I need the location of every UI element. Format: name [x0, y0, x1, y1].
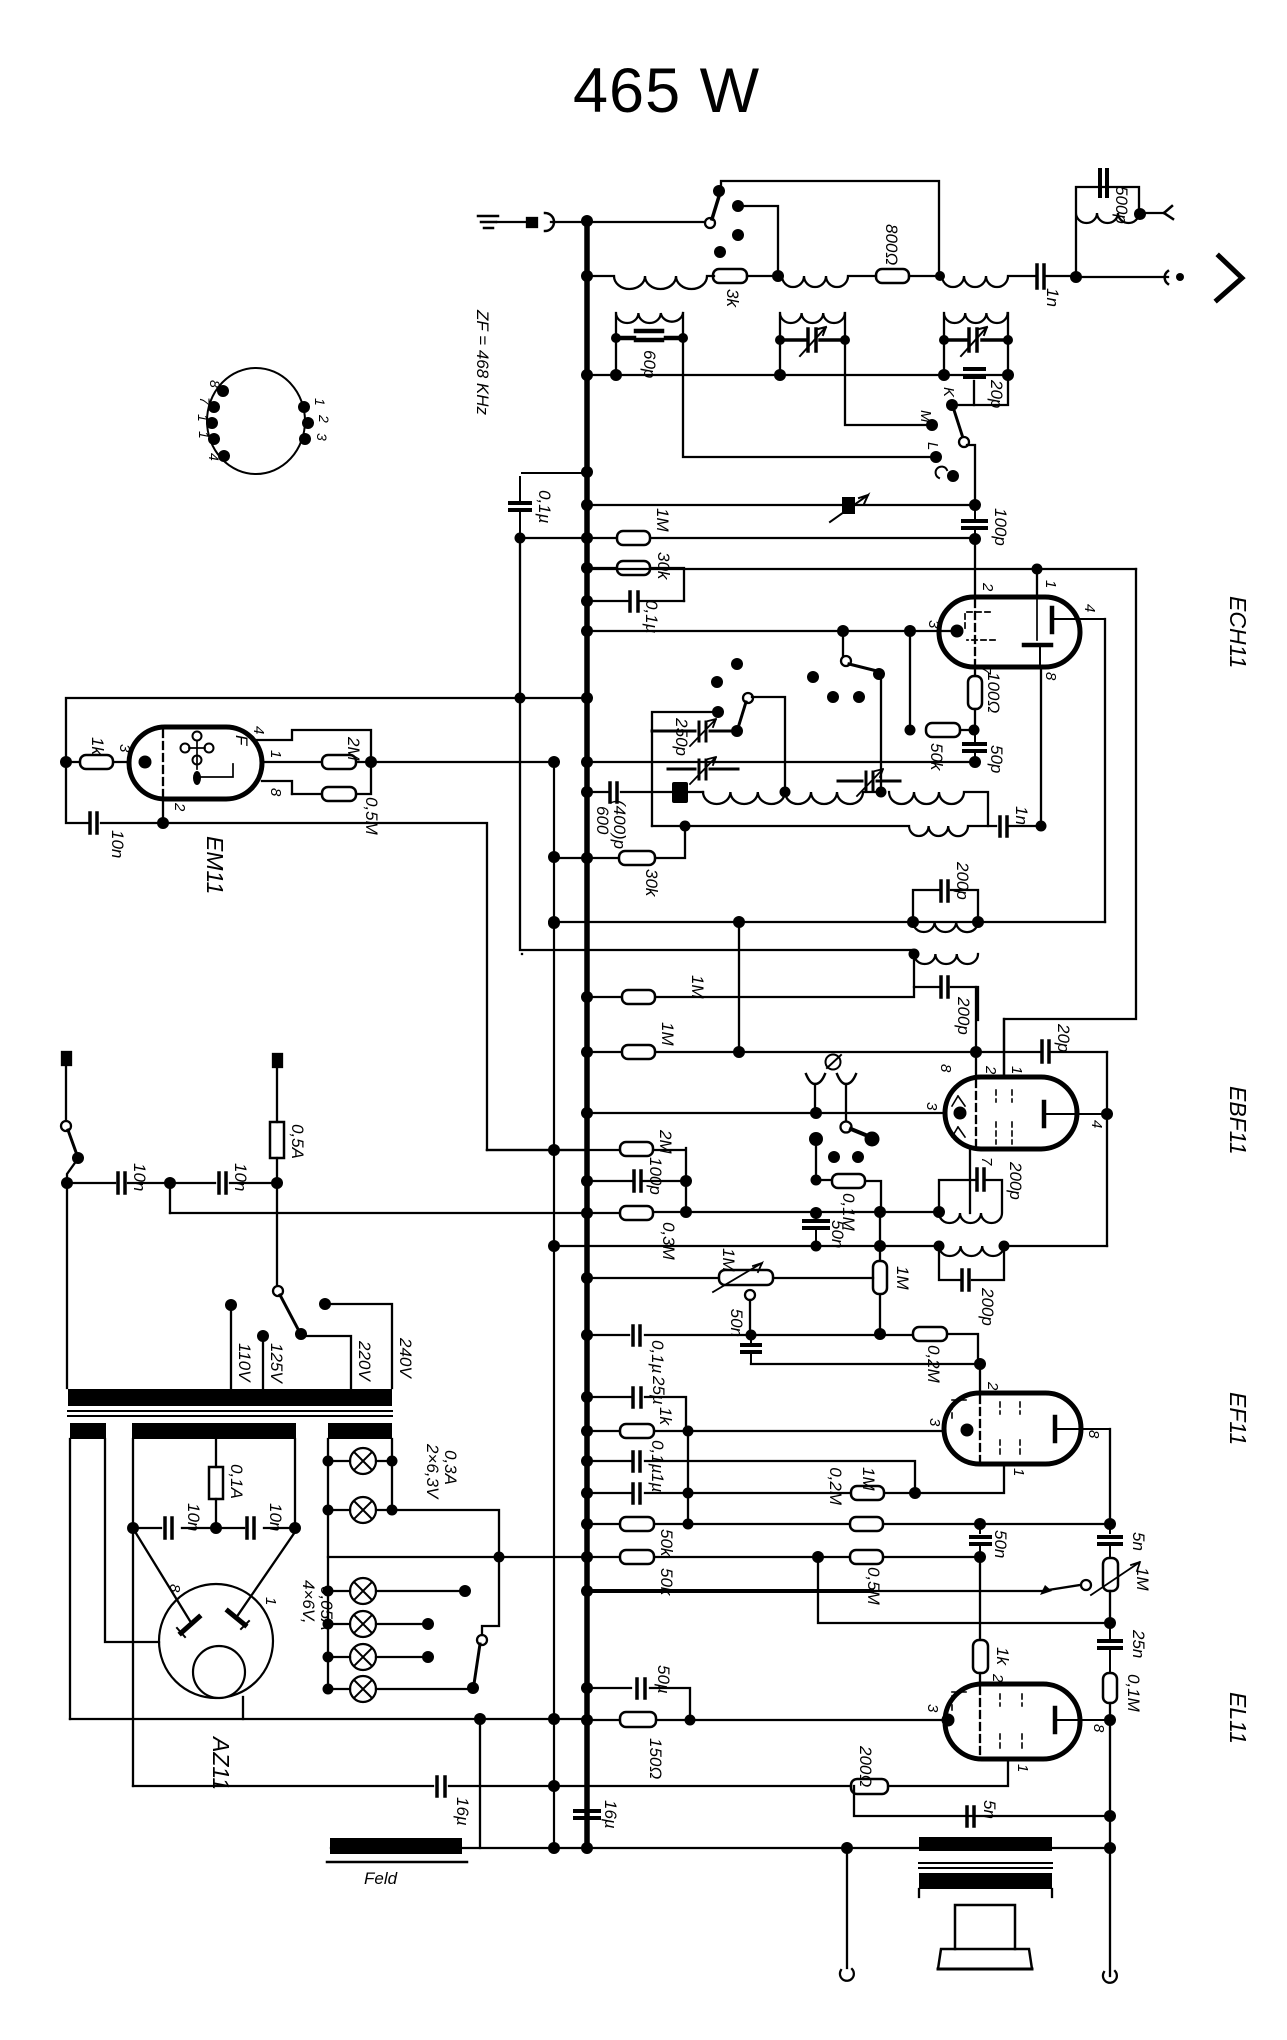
wire ground to plug: [497, 221, 525, 223]
capacitor 1n: [1037, 265, 1044, 288]
wire grid row: [520, 537, 975, 539]
EF11 interior: [979, 1396, 981, 1461]
wire anode down: [1109, 1720, 1111, 1976]
svg-text:0,05A: 0,05A: [317, 1586, 336, 1630]
wire row E 0,1µ: [587, 1461, 915, 1493]
wire EBF pin7: [969, 1149, 971, 1213]
wire AVC 2M row: [487, 1148, 686, 1181]
svg-text:3k: 3k: [723, 289, 742, 308]
capacitor 10n EM: [90, 813, 97, 833]
svg-text:16µ: 16µ: [601, 1800, 620, 1829]
trimmer cap osc C: [838, 772, 900, 791]
wire 10n row: [133, 1527, 295, 1529]
svg-text:L: L: [924, 442, 941, 450]
wire triode anode down: [1040, 667, 1042, 826]
anode hexode: [1052, 608, 1105, 632]
resistor 150Ω: [620, 1712, 656, 1727]
svg-text:465 W: 465 W: [573, 56, 760, 126]
svg-text:240V: 240V: [396, 1337, 415, 1379]
wire switch to top rail: [721, 181, 939, 276]
capacitor 50p: [964, 730, 985, 762]
svg-text:220V: 220V: [355, 1340, 374, 1382]
svg-text:1n: 1n: [1012, 806, 1031, 825]
contact 110V: [225, 1299, 237, 1311]
band switch contact G: [947, 470, 959, 482]
IF tank 3: [944, 313, 1008, 375]
svg-text:25µ: 25µ: [649, 1375, 668, 1405]
wire contact down: [815, 1139, 817, 1180]
junction: [772, 270, 784, 282]
coil L2: [778, 276, 876, 287]
svg-text:5n: 5n: [980, 1800, 999, 1819]
mains switch: [61, 1121, 71, 1131]
terminal left: [846, 1848, 848, 1968]
svg-text:1: 1: [196, 431, 212, 439]
svg-text:50µ: 50µ: [654, 1665, 673, 1694]
capacitor 10n ht2: [247, 1518, 254, 1538]
svg-text:10n: 10n: [266, 1503, 285, 1531]
wire row 601: [587, 600, 684, 602]
trimmer cap osc A: [652, 722, 737, 741]
svg-text:Feld: Feld: [364, 1869, 398, 1888]
svg-text:50k: 50k: [657, 1529, 676, 1558]
capacitor 16µ 2: [575, 1811, 599, 1818]
svg-text:1M: 1M: [719, 1248, 738, 1272]
lamp 2: [350, 1497, 376, 1523]
svg-text:2M: 2M: [656, 1129, 675, 1154]
wire B+ feed row 1052: [587, 922, 1107, 1052]
wire cathode row 1113: [587, 1112, 945, 1114]
capacitor 10n ht1: [165, 1518, 172, 1538]
lamp 4: [350, 1611, 376, 1637]
svg-text:600: 600: [593, 806, 612, 835]
capacitor 600(400)p: [610, 783, 617, 802]
wire mains row: [67, 1182, 277, 1184]
resistor 1M avc: [622, 990, 655, 1004]
svg-text:3: 3: [924, 1704, 941, 1713]
svg-text:3: 3: [923, 1102, 940, 1111]
tuning gang capacitor: [842, 497, 855, 514]
anode EL: [1055, 1708, 1110, 1732]
anode EF: [1055, 1417, 1110, 1441]
wire row K cathode: [70, 1719, 944, 1720]
junction switch contact: [713, 185, 725, 197]
wire jog to row 1213: [169, 1183, 171, 1213]
wire primary left: [66, 1183, 68, 1388]
band switch contact L: [930, 451, 942, 463]
capacitor 5n out: [967, 1807, 974, 1826]
svg-text:8: 8: [1042, 672, 1059, 681]
wire lever to line: [967, 445, 975, 505]
contact 240V: [319, 1298, 331, 1310]
wire contact to left branch: [652, 712, 718, 826]
resistor 1M screen: [622, 1045, 655, 1059]
tube socket diagram: [207, 368, 305, 474]
wire row G screen: [587, 1523, 1110, 1525]
resistor 3k: [713, 269, 747, 283]
wire EM11 top loop: [66, 698, 587, 762]
band switch contact M: [926, 419, 938, 431]
capacitor 200p IF4: [962, 1270, 969, 1290]
IF4 winding: [939, 1246, 1004, 1280]
wire fuse to selector: [276, 1183, 278, 1286]
lamp 5: [350, 1644, 376, 1670]
svg-text:1M: 1M: [688, 975, 707, 999]
svg-text:100Ω: 100Ω: [984, 672, 1003, 713]
wire B+ row 922: [554, 921, 1105, 923]
wire tone row 1623: [818, 1557, 1110, 1623]
svg-text:1M: 1M: [893, 1266, 912, 1290]
capacitor 60p: [616, 331, 683, 340]
junction dots row2: [610, 369, 622, 381]
wire AZ cathode: [242, 1697, 244, 1719]
capacitor 10n mains2: [219, 1173, 226, 1193]
resistor 50k 2: [620, 1550, 654, 1564]
wire bottom B+ row: [331, 1847, 1111, 1849]
wire pin8: [262, 781, 292, 794]
band switch contact K: [946, 399, 958, 411]
AVC long vertical: [1004, 569, 1136, 1077]
resistor 0,3M: [620, 1206, 653, 1220]
potentiometer 1M tone: [1103, 1558, 1118, 1591]
svg-text:4: 4: [206, 453, 222, 461]
svg-text:1n: 1n: [1043, 288, 1062, 307]
svg-text:ECH11: ECH11: [1225, 596, 1251, 668]
IF1 primary: [913, 890, 978, 932]
speaker: [919, 1889, 1052, 1897]
resistor 30k osc: [619, 851, 655, 865]
svg-text:100p: 100p: [991, 508, 1010, 546]
svg-text:1: 1: [262, 1597, 279, 1605]
svg-text:50n: 50n: [991, 1530, 1010, 1558]
svg-text:16µ: 16µ: [453, 1797, 472, 1826]
wire row 858: [554, 826, 685, 858]
wire 4V winding right: [105, 1439, 159, 1642]
svg-text:1k: 1k: [88, 737, 107, 756]
phono contact: [809, 1132, 823, 1146]
svg-text:2×6,3V: 2×6,3V: [423, 1443, 442, 1500]
svg-text:0,3M: 0,3M: [659, 1222, 678, 1261]
resistor 0,5M: [292, 768, 371, 794]
capacitor 200p: [941, 881, 948, 901]
capacitor 25n: [1099, 1623, 1121, 1673]
svg-text:10n: 10n: [108, 830, 127, 858]
svg-text:0,2M: 0,2M: [826, 1467, 845, 1506]
svg-text:0,5M: 0,5M: [362, 797, 381, 836]
wire HV right: [294, 1439, 296, 1528]
svg-text:0,1A: 0,1A: [227, 1464, 246, 1499]
svg-text:200p: 200p: [1006, 1161, 1025, 1200]
switch contact dots: [732, 200, 744, 212]
capacitor 10n mains1: [118, 1173, 125, 1193]
tube EL11: [945, 1684, 1080, 1759]
svg-text:1M: 1M: [658, 1022, 677, 1046]
phono switch: [841, 1122, 852, 1133]
wire plug to bus to switch: [551, 221, 705, 223]
svg-text:20p: 20p: [1054, 1023, 1073, 1052]
switch S1 antenna: [705, 218, 715, 228]
svg-text:200p: 200p: [953, 861, 972, 900]
svg-text:0,1µ: 0,1µ: [535, 490, 554, 524]
resistor 0,2M screen: [850, 1517, 883, 1531]
resistor 0,2M g: [913, 1327, 947, 1341]
wire EF anode down: [1109, 1429, 1111, 1524]
svg-text:250p: 250p: [672, 717, 691, 756]
dial lamps feed: [328, 1439, 392, 1689]
lamp selector switch: [477, 1635, 487, 1645]
resistor 2M avc: [620, 1142, 653, 1156]
resistor 800Ω: [876, 269, 909, 283]
svg-text:1: 1: [1010, 1468, 1027, 1476]
trimmer cap osc B: [668, 760, 738, 779]
junction EM grid: [60, 756, 72, 768]
trimmer cap tank2: [780, 329, 845, 351]
wire coil to pickup terminal: [1140, 212, 1163, 214]
svg-text:2: 2: [316, 414, 332, 423]
resistor 1k EL grid: [973, 1640, 988, 1673]
svg-text:M: M: [917, 410, 934, 423]
field coil Feld: [330, 1838, 462, 1854]
lamp 1: [350, 1448, 376, 1474]
svg-text:4: 4: [1088, 1120, 1105, 1128]
svg-text:8: 8: [166, 1584, 183, 1593]
capacitor 50n EL grid: [971, 1524, 990, 1557]
svg-text:1: 1: [1042, 580, 1059, 588]
wire cathode loop: [66, 762, 487, 1150]
cathode dot: [951, 625, 964, 638]
svg-text:1: 1: [267, 750, 284, 758]
svg-text:125V: 125V: [267, 1343, 286, 1384]
svg-text:2: 2: [984, 1381, 1001, 1391]
svg-text:1: 1: [312, 398, 328, 406]
resistor 1k EF: [620, 1424, 654, 1438]
phono terminal right: [837, 1074, 856, 1084]
IF tank 1: [616, 313, 683, 375]
ground: [478, 216, 498, 228]
wire M to tank2: [845, 375, 930, 425]
svg-text:50n: 50n: [828, 1220, 847, 1248]
resistor 0,5M: [850, 1550, 883, 1564]
wire pivot to osc coil: [752, 697, 785, 793]
svg-text:110V: 110V: [235, 1343, 254, 1383]
wire to coil L3: [909, 275, 942, 277]
wire back bias row: [133, 1759, 1008, 1786]
svg-text:1M: 1M: [859, 1467, 878, 1491]
svg-text:0,1µ: 0,1µ: [642, 600, 661, 634]
EBF11 interior: [975, 1080, 977, 1146]
wire row2 from bus: [587, 374, 1008, 376]
capacitor 0,1µ: [630, 592, 638, 611]
anode triode: [1024, 645, 1051, 667]
wire pin2: [162, 799, 164, 823]
svg-text:0,5A: 0,5A: [288, 1124, 307, 1159]
antenna arrow: [1217, 256, 1242, 300]
terminal antenna: [1176, 273, 1184, 281]
svg-text:EL11: EL11: [1225, 1692, 1251, 1744]
osc band switch contacts: [731, 658, 743, 670]
svg-text:30k: 30k: [654, 552, 673, 581]
capacitor 50µ: [637, 1679, 645, 1698]
svg-text:7: 7: [197, 397, 213, 406]
svg-text:5n: 5n: [1129, 1532, 1148, 1551]
svg-text:50n: 50n: [727, 1309, 746, 1337]
wire row 762: [587, 761, 975, 763]
resistor 50k: [926, 723, 960, 737]
supply rail: [553, 762, 555, 1848]
terminal Y: [1164, 206, 1173, 219]
wire grid row A: [587, 1334, 978, 1364]
capacitor 0,1µ EM: [510, 473, 587, 538]
svg-text:1M: 1M: [653, 508, 672, 532]
resistor 1k EM: [72, 761, 128, 763]
wire AZ to field: [479, 1719, 481, 1848]
svg-text:0,5M: 0,5M: [864, 1567, 883, 1606]
osc switch lever: [743, 693, 753, 703]
coil L3: [942, 276, 1036, 287]
lamp 3: [350, 1578, 376, 1604]
coil L1: [587, 276, 714, 289]
resistor 0,1M phono: [816, 1180, 881, 1213]
svg-text:3: 3: [925, 620, 942, 629]
svg-text:50k: 50k: [927, 743, 946, 772]
mains pin 1: [62, 1052, 71, 1065]
wire back bias from HV: [132, 1528, 134, 1786]
capacitor 200p IF1s: [941, 977, 948, 997]
svg-text:2: 2: [979, 582, 996, 592]
capacitor 20p: [965, 369, 984, 377]
wire grid1 row 569: [587, 568, 1136, 570]
wire cap to junction: [1046, 275, 1076, 277]
trimmer cap tank3: [944, 329, 1008, 351]
phono terminal left: [806, 1074, 825, 1084]
svg-text:2M: 2M: [344, 736, 363, 761]
svg-text:800Ω: 800Ω: [882, 224, 901, 265]
wire L to tank1: [683, 375, 934, 457]
wire cathode to 50k: [909, 631, 911, 730]
resistor 50k screen: [620, 1517, 654, 1531]
svg-text:4: 4: [250, 726, 267, 734]
EM11 interior: [162, 730, 164, 796]
wire HV left: [132, 1439, 134, 1528]
capacitor 1n osc: [1000, 817, 1007, 836]
wire pin4: [256, 730, 371, 762]
contact 125V: [257, 1330, 269, 1342]
svg-text:10n: 10n: [231, 1163, 250, 1191]
wire cathode row C: [587, 1397, 686, 1431]
wire K contact: [952, 375, 1008, 405]
svg-text:(400)p: (400)p: [610, 800, 629, 849]
oscillator coil 2: [652, 826, 996, 836]
resistor 100Ω: [968, 676, 982, 709]
mains pin 2: [273, 1054, 282, 1067]
capacitor 200p IF3: [977, 1169, 984, 1190]
wire 100p row: [587, 1180, 686, 1182]
svg-text:0,1µ: 0,1µ: [648, 1340, 667, 1374]
wire resistor to junction: [747, 275, 778, 277]
band switch lever: [953, 407, 963, 438]
resistor 0,1M: [1103, 1673, 1117, 1703]
AZ11 plates: [181, 1611, 245, 1633]
svg-text:0,3A: 0,3A: [441, 1450, 460, 1485]
capacitor 50n EF: [742, 1335, 760, 1364]
svg-text:8: 8: [1090, 1724, 1107, 1733]
wire pin2 EF: [979, 1364, 981, 1393]
svg-text:10n: 10n: [130, 1163, 149, 1191]
junction: [935, 271, 945, 281]
svg-text:150Ω: 150Ω: [646, 1738, 665, 1779]
capacitor 0,1µ g3: [633, 1452, 640, 1471]
wire row 568: [587, 568, 684, 601]
output transformer secondary: [919, 1873, 1052, 1889]
svg-text:0,1M: 0,1M: [1124, 1674, 1143, 1713]
resistor 1M g3: [851, 1486, 884, 1500]
socket pin labels: [195, 380, 332, 461]
IF1 secondary: [914, 954, 978, 1020]
svg-text:EM11: EM11: [202, 836, 228, 894]
antenna plug: [527, 218, 537, 227]
wire 4V winding left: [69, 1439, 71, 1719]
svg-text:200p: 200p: [954, 996, 973, 1035]
transformer secondary windings: [70, 1423, 106, 1439]
wire AVC to IF1 sec: [520, 538, 914, 954]
svg-text:1: 1: [1014, 1764, 1031, 1772]
lamp 6: [350, 1676, 376, 1702]
wire AVC 1M row: [587, 987, 914, 997]
svg-text:K: K: [940, 387, 957, 398]
svg-text:100p: 100p: [646, 1157, 665, 1195]
svg-text:1k: 1k: [993, 1647, 1012, 1666]
capacitor 100p avc: [634, 1171, 641, 1191]
svg-text:EBF11: EBF11: [1225, 1086, 1251, 1155]
svg-text:2: 2: [982, 1065, 999, 1075]
svg-text:EF11: EF11: [1225, 1392, 1251, 1445]
svg-text:1: 1: [195, 414, 211, 422]
capacitor 5n tone: [1099, 1524, 1121, 1558]
wire row D 1k: [587, 1430, 944, 1432]
svg-text:0,1µ: 0,1µ: [648, 1440, 667, 1474]
wire tuning line: [587, 504, 975, 506]
svg-text:ZF = 468 KHz: ZF = 468 KHz: [473, 309, 492, 416]
wire row I thick: [587, 1589, 872, 1593]
svg-text:10n: 10n: [184, 1503, 203, 1531]
svg-text:AZ11: AZ11: [208, 1735, 234, 1790]
svg-text:4: 4: [1081, 604, 1098, 612]
transformer core: [68, 1411, 392, 1416]
capacitor 20p det: [1042, 1041, 1049, 1062]
potentiometer 1M volume: [719, 1270, 773, 1285]
capacitor 0,1µ EF: [633, 1326, 640, 1345]
capacitor 16µ: [437, 1777, 445, 1796]
wire EL grid chain: [979, 1557, 981, 1640]
ground bus: [584, 219, 590, 1848]
wire det row 1246: [554, 1245, 1107, 1247]
oscillator coil: [703, 792, 988, 826]
wire det right vertical: [1106, 1052, 1108, 1246]
resistor 2M: [322, 755, 356, 769]
svg-text:7: 7: [978, 1157, 995, 1166]
wire 25µ to row D: [687, 1431, 689, 1493]
capacitor 100p: [963, 505, 986, 539]
capacitor 250p: [672, 782, 688, 803]
resistor 200Ω: [851, 1779, 888, 1794]
wire EBF pin2: [975, 987, 977, 1077]
wire pin1 down: [1036, 569, 1038, 594]
wire EBF pin1: [1003, 1019, 1005, 1077]
wire plate diagonals: [134, 1530, 295, 1621]
wire wiper down: [749, 1300, 751, 1335]
tube EF11: [944, 1393, 1081, 1464]
svg-text:1: 1: [1008, 1066, 1025, 1074]
